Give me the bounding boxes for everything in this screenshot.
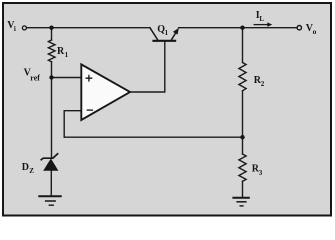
svg-text:Z: Z <box>29 167 34 175</box>
wire R1 bottom to Vref node <box>51 62 53 78</box>
wire feedback bottom <box>64 136 242 138</box>
node: R2 / R3 feedback junction <box>240 135 244 139</box>
op-amp minus sign <box>87 109 94 111</box>
svg-text:1: 1 <box>65 51 69 59</box>
svg-text:D: D <box>22 162 29 173</box>
resistor R3 <box>239 154 246 181</box>
wire Vref node down to zener <box>51 78 53 159</box>
op-amp plus sign <box>86 75 93 82</box>
Q1 collector diagonal <box>150 28 158 40</box>
wire Q1 emitter to Vo <box>179 27 298 29</box>
wire op-amp minus input <box>64 111 81 138</box>
Q1 emitter diagonal <box>171 31 177 41</box>
svg-text:1: 1 <box>165 29 169 37</box>
current arrow IL <box>254 24 269 26</box>
svg-text:i: i <box>14 25 16 33</box>
ground under R3 <box>232 198 249 206</box>
svg-text:3: 3 <box>259 169 263 177</box>
Q1 base bar <box>152 40 176 42</box>
node: output / R2 junction <box>240 26 244 30</box>
zener diode DZ cathode bar with wings <box>41 153 59 160</box>
wire R2 bottom to feedback node <box>242 91 244 137</box>
resistor R2 <box>239 63 246 91</box>
wire R2 top lead <box>242 28 244 63</box>
Q1 emitter arrowhead <box>173 28 179 35</box>
wire R3 bottom lead <box>242 181 244 197</box>
wire node to R3 <box>242 137 244 154</box>
svg-text:L: L <box>259 15 264 23</box>
wire top-left from Vi to Q1 collector <box>27 27 150 29</box>
wire op-amp output to Q1 base <box>130 42 165 92</box>
transistor Q1 <box>150 28 177 41</box>
wire Vref to op-amp + input <box>52 77 82 79</box>
wire zener anode to ground <box>50 171 52 196</box>
terminal Vi <box>22 26 26 30</box>
zener diode DZ anode triangle <box>43 159 58 171</box>
svg-text:ref: ref <box>30 74 40 83</box>
node Vref junction <box>49 75 53 79</box>
wire R1 top lead <box>51 28 53 40</box>
node A: Vi / R1 junction <box>49 26 53 30</box>
svg-text:o: o <box>313 27 317 36</box>
op-amp U1 <box>81 64 130 120</box>
svg-text:2: 2 <box>261 80 265 88</box>
terminal Vo <box>297 26 301 30</box>
ground under zener <box>38 196 61 205</box>
resistor R1 <box>48 40 55 62</box>
